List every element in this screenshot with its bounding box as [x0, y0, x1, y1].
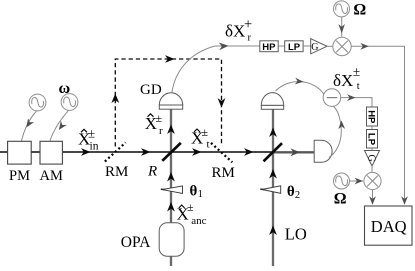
svg-text:±: ±: [353, 64, 360, 79]
svg-text:AM: AM: [40, 168, 63, 184]
arrow LO beam low: [269, 226, 277, 236]
label dXt: [333, 64, 360, 92]
svg-text:G: G: [311, 42, 318, 53]
svg-text:±: ±: [202, 125, 209, 139]
svg-text:ω: ω: [59, 80, 71, 97]
svg-text:R: R: [147, 164, 157, 180]
svg-text:PM: PM: [9, 168, 30, 184]
detector homodyne right: [314, 140, 332, 162]
wire right detector to subtractor: [329, 106, 341, 158]
svg-text:δX: δX: [225, 22, 245, 41]
label theta1: [190, 183, 203, 199]
arrow beam after BS R: [192, 148, 202, 156]
arrow dome wire: [295, 78, 304, 85]
svg-text:anc: anc: [191, 215, 206, 227]
wire GD to HP: [172, 46, 260, 92]
OPA cell: [159, 223, 184, 257]
mixer 1: [333, 37, 351, 55]
phase wedge theta1: [161, 188, 167, 191]
arrow OPA beam below wedge: [167, 202, 175, 212]
wire transmitted beam to detector: [273, 151, 314, 153]
oscillator Omega bottom: [334, 173, 350, 189]
svg-text:OPA: OPA: [121, 234, 151, 251]
svg-text:GD: GD: [140, 82, 162, 98]
phase wedge theta2: [260, 188, 266, 191]
wire LO beam vertical: [272, 109, 274, 266]
arrow beam before BS R: [141, 148, 151, 156]
svg-text:Ω: Ω: [334, 190, 347, 207]
arrow reflected beam up: [167, 125, 175, 135]
oscillator omega 2: [61, 94, 78, 111]
amplifier G2: [365, 151, 380, 167]
low-pass filter LP2: [367, 130, 378, 149]
arrow beam after AM: [81, 148, 91, 156]
wire oscillator1 to PM: [22, 111, 37, 141]
wire OPA beam vertical: [170, 109, 172, 223]
arrow oscillator2: [59, 121, 67, 130]
arrow OPA beam below BS: [167, 172, 175, 182]
label Xr: [145, 111, 163, 137]
svg-text:±: ±: [187, 200, 194, 214]
homodyne beam splitter: [264, 143, 283, 161]
label theta2: [287, 184, 300, 201]
high-pass filter HP1: [260, 41, 278, 52]
beam splitter R: [162, 143, 181, 161]
phase modulator PM: [8, 141, 32, 164]
wire dashed feedforward path: [115, 59, 221, 147]
svg-text:t: t: [207, 139, 210, 151]
DAQ box: [365, 206, 413, 245]
wire LP2 to G2: [371, 148, 373, 151]
detector homodyne top: [261, 93, 283, 106]
svg-text:HP: HP: [366, 110, 377, 124]
arrow Omega mixer1: [338, 24, 345, 34]
arrow Omega mixer2: [355, 178, 364, 185]
amplitude modulator AM: [40, 141, 62, 164]
wire G1 to mixer: [327, 45, 333, 47]
low-pass filter LP1: [285, 41, 303, 52]
wire mixer1 to DAQ: [351, 46, 405, 204]
svg-text:r: r: [248, 33, 252, 44]
svg-text:RM: RM: [212, 165, 235, 181]
svg-text:t: t: [357, 81, 360, 92]
oscillator omega 1: [29, 94, 46, 111]
arrow into DAQ left: [369, 196, 376, 205]
wire Omega2 to mixer2: [350, 180, 364, 182]
svg-text:in: in: [90, 141, 99, 153]
svg-text:2: 2: [295, 190, 300, 201]
wire LP1 to G1: [303, 45, 311, 47]
svg-text:θ: θ: [287, 184, 295, 200]
high-pass filter HP2: [367, 107, 378, 126]
svg-text:LP: LP: [288, 42, 301, 53]
oscillator Omega top: [334, 1, 350, 17]
amplifier G1: [311, 39, 327, 54]
arrow subtractor out: [347, 94, 356, 101]
svg-text:LO: LO: [285, 225, 307, 244]
removable mirror RM2: [211, 143, 232, 162]
arrow detector wire: [338, 121, 345, 130]
mixer 2: [364, 172, 381, 189]
svg-text:r: r: [159, 125, 163, 137]
svg-text:Ω: Ω: [353, 1, 366, 18]
arrow LO beam below wedge: [269, 169, 277, 179]
arrow mixer1 out: [360, 43, 369, 50]
arrow dashed down: [218, 98, 226, 108]
arrow GD wire: [219, 43, 229, 51]
label Xin: [78, 126, 99, 153]
label Xanc: [177, 200, 207, 227]
wire HP2 to LP2: [371, 126, 373, 130]
svg-text:±: ±: [88, 126, 95, 141]
svg-text:1: 1: [198, 189, 203, 200]
wire HP1 to LP1: [278, 45, 285, 47]
svg-text:DAQ: DAQ: [371, 217, 407, 236]
subtractor minus: [323, 89, 341, 107]
svg-text:RM: RM: [105, 164, 128, 180]
wire Omega to mixer1: [341, 17, 343, 37]
label Xt: [191, 125, 210, 151]
detector GD: [159, 93, 182, 105]
wire G2 to mixer2: [371, 166, 373, 172]
wire input beam horizontal: [0, 151, 273, 153]
label dXr: [225, 16, 252, 43]
arrow LO beam above BS: [269, 128, 277, 138]
arrow dashed right: [165, 55, 175, 63]
svg-text:+: +: [244, 16, 252, 32]
wire mixer2 to DAQ: [372, 190, 374, 204]
svg-text:δX: δX: [333, 71, 353, 90]
wire subtractor to HP2: [341, 98, 372, 107]
svg-text:±: ±: [156, 111, 163, 125]
arrow dashed up: [111, 94, 119, 104]
svg-text:LP: LP: [366, 133, 377, 146]
wire top dome to subtractor: [276, 82, 324, 95]
svg-text:θ: θ: [190, 183, 198, 199]
arrow into DAQ right: [401, 196, 408, 205]
arrow oscillator1: [26, 118, 34, 127]
wire oscillator2 to AM: [50, 110, 69, 140]
arrow beam after RM2: [244, 148, 254, 156]
svg-text:G: G: [366, 155, 377, 162]
arrow beam into detector: [291, 148, 301, 156]
svg-text:HP: HP: [262, 42, 276, 53]
removable mirror RM1: [105, 143, 126, 162]
